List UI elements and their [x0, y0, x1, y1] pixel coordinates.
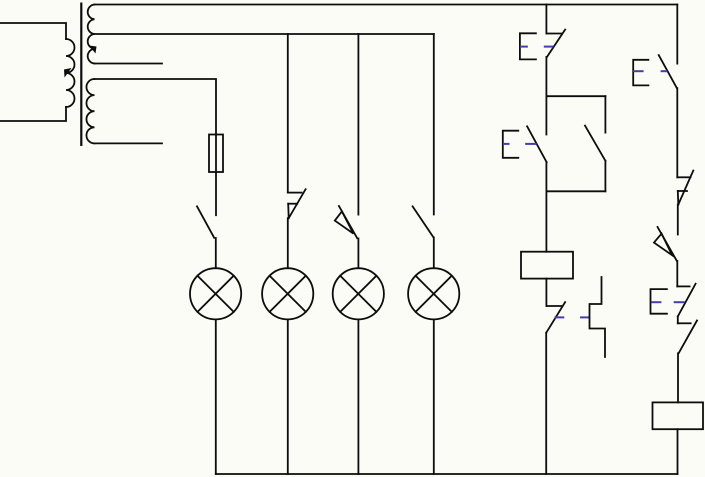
pushbutton S7 (NO) contact [659, 55, 677, 88]
pushbutton S10 actuator E [651, 289, 667, 314]
wire node to relay coil K1 [545, 191, 547, 251]
wire K1.1 down [604, 161, 606, 192]
wire S4 to lamp H4 [433, 238, 435, 269]
contact K1.2 (NC) [678, 321, 697, 354]
position switch S2 (NC limit) [288, 189, 306, 218]
wire parallel branch bottom [546, 190, 605, 192]
relay coil K2 [653, 402, 704, 429]
position switch S9 (NO limit) [654, 227, 677, 261]
wire F2 to bottom bus [545, 333, 547, 474]
position switch S3 (NO limit) [335, 206, 357, 238]
transformer T1 primary winding [66, 39, 75, 107]
contact K1.1 (NO) [585, 126, 605, 161]
pushbutton S6 (NO) contact [527, 126, 547, 162]
wire S5 to node [545, 57, 547, 96]
transformer T1 secondary winding 2 [86, 79, 94, 143]
wire top bus to pushbutton S7 [676, 5, 678, 64]
lamp H3 [333, 268, 384, 319]
transformer T1 secondary winding 2 bottom tap [95, 142, 163, 144]
wire top bus from T1 to node B [95, 4, 678, 6]
wire parallel branch top [546, 95, 605, 97]
wire S6 down [545, 162, 547, 191]
transformer T1 primary bottom lead [1, 107, 67, 121]
transformer T1 primary top lead [1, 23, 67, 39]
lamp H2 [262, 268, 313, 319]
pushbutton S10 dashed link [651, 301, 684, 303]
wire S2 to lamp H2 [287, 218, 289, 268]
wire right parallel branch to contact K1.1 [604, 96, 606, 132]
wire K1.2 to relay coil K2 [677, 353, 679, 402]
pushbutton S10 (NC) contact [677, 284, 695, 317]
wire second bus from T1 tap to lamp column 4 [95, 33, 434, 35]
wire fuse to switch S1 [215, 172, 217, 215]
lamp H1 [190, 268, 241, 319]
wire S3 to lamp H3 [357, 239, 359, 269]
lamp H4 [408, 268, 459, 319]
transformer T1 primary winding arrow [64, 68, 72, 78]
transformer T1 secondary winding 1 arrow [89, 46, 97, 54]
wire H2 to bottom bus [287, 319, 289, 474]
wire S8 to position switch S9 [677, 205, 679, 235]
fuse F1 [215, 135, 217, 173]
wire bus2 to switch S2 [287, 34, 289, 192]
switch S4 (NO) [413, 206, 434, 237]
pushbutton S5 (NC) contact [546, 30, 565, 57]
pushbutton S7 actuator E [633, 60, 648, 86]
wire from T1 secondary 2 to fuse F1 [95, 79, 217, 135]
dashed link F2 to latch [555, 316, 591, 318]
mechanical latch symbol [590, 277, 606, 357]
wire H3 to bottom bus [357, 319, 359, 474]
transformer T1 secondary winding 1 [88, 5, 95, 64]
pushbutton S6 actuator E [503, 131, 519, 158]
wire S7 to position switch S8 [676, 88, 678, 177]
wire H1 to bottom bus [215, 319, 217, 474]
wire S1 to lamp H1 [215, 238, 217, 268]
pushbutton S7 dashed link [633, 70, 667, 72]
pushbutton S5 dashed link [520, 46, 554, 48]
position switch S8 (NC limit) [677, 171, 693, 205]
relay coil K1 [521, 252, 573, 279]
pushbutton S6 dashed link [503, 143, 537, 145]
wire top bus to pushbutton S5 [545, 5, 547, 34]
wire to pushbutton S6 [545, 96, 547, 134]
wire bus2 to switch S3 [357, 34, 359, 215]
transformer T1 core [80, 3, 82, 147]
wire bus2 to switch S4 [433, 34, 435, 215]
wire bottom bus [216, 473, 678, 475]
wire K1 to contact [545, 279, 547, 306]
wire S10 to contact K1.2 [677, 316, 679, 323]
wire H4 to bottom bus [433, 319, 435, 474]
pushbutton S5 actuator E [520, 33, 536, 59]
switch S1 (NO) [197, 206, 214, 237]
wire S9 to pushbutton S10 [676, 261, 678, 286]
wire K2 to bottom bus [677, 429, 679, 474]
transformer T1 secondary winding 1 bottom tap [95, 63, 163, 65]
thermal contact F2 (NC) [546, 302, 565, 333]
